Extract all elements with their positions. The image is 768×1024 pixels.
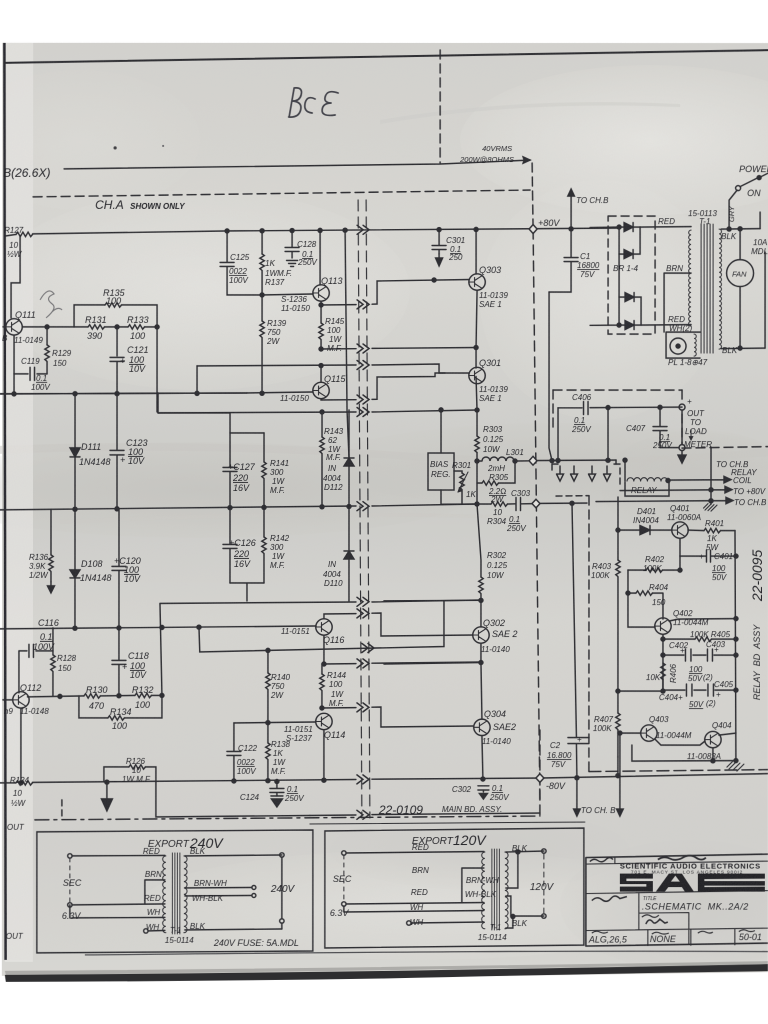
wire BRN-WH 120 bbox=[506, 852, 518, 888]
wire BRN bracket 120 bbox=[462, 868, 484, 902]
wire Q302 emitter junction bbox=[481, 643, 482, 719]
resistor R141 bbox=[263, 433, 265, 508]
resistor R405 bbox=[695, 637, 712, 641]
ground relay rail bbox=[727, 762, 744, 772]
terminal 120V top bbox=[542, 849, 546, 853]
wire relay right rail x736 bbox=[735, 531, 736, 763]
top border line bbox=[4, 50, 768, 63]
resistor R134 bbox=[108, 716, 125, 720]
wire Q403 Q404 bottom line y761 bbox=[632, 745, 736, 761]
wire RED top 240 bbox=[72, 854, 165, 857]
title block frame bbox=[586, 854, 768, 946]
capacitor C128 bbox=[285, 231, 299, 258]
wire R131 R133 line bbox=[74, 326, 157, 328]
wire Q404 collector bbox=[719, 733, 736, 735]
node METER circle bbox=[679, 445, 685, 451]
node +80V diamond bbox=[529, 225, 537, 234]
terminal SEC bottom bbox=[68, 903, 72, 907]
wire step column x161 bbox=[160, 600, 480, 696]
wire Q113 base bbox=[262, 294, 313, 295]
resistor R142 bbox=[263, 508, 265, 583]
node junction R129 top bbox=[45, 325, 49, 329]
wire Q403 base bbox=[620, 732, 641, 734]
wire fan top bbox=[739, 229, 741, 259]
wire 120V dashed link bbox=[543, 854, 545, 913]
resistor R129 bbox=[46, 327, 48, 374]
wire WH bottom 240 bbox=[148, 929, 165, 932]
wire relay coil to TO CH.B RELAY COIL arrow bbox=[668, 476, 731, 482]
resistor R304 bbox=[491, 502, 508, 506]
capacitor C126 bbox=[223, 508, 237, 583]
transformer 240 secondary coil bbox=[184, 856, 187, 933]
node junction 197 bbox=[195, 391, 199, 395]
wire C404 C405 line y690 bbox=[663, 689, 736, 691]
diode D110 bbox=[344, 551, 354, 559]
node B line B(26.6X) bbox=[64, 160, 530, 169]
wire WH-BLK 120 bbox=[506, 896, 511, 916]
wire TO CH.B arrow left bbox=[576, 778, 578, 810]
capacitor C2 bbox=[568, 738, 589, 744]
terminal 120V bottom bbox=[542, 914, 546, 918]
wire BLK bottom 240 bbox=[185, 929, 282, 930]
ground arrow meter bbox=[660, 448, 682, 457]
ground hatch x711 bbox=[704, 504, 718, 512]
label DATE bbox=[592, 931, 608, 933]
node junction R140 top bbox=[266, 648, 270, 652]
wire input stub Q111 base bbox=[3, 326, 6, 328]
terminal pin 1 bbox=[557, 466, 564, 481]
wire relay left to output bbox=[624, 460, 626, 481]
rail -80V y782 bbox=[0, 773, 768, 783]
wire Q115 emitter step bbox=[321, 373, 445, 400]
ground arrow C301 bbox=[438, 254, 440, 259]
wire bias reg bottom to R304 line bbox=[441, 490, 477, 504]
terminal 240V top bbox=[280, 853, 284, 857]
wire Q115 collector bbox=[320, 365, 322, 382]
feedback rail y394 bbox=[0, 393, 247, 394]
bias regulator box U301 bbox=[428, 453, 454, 490]
dashed stub above 40VRMS bbox=[439, 50, 441, 163]
node junctions rail696 bbox=[58, 694, 62, 698]
resistor R131 bbox=[88, 325, 105, 329]
wire BRN-WH 240 bbox=[185, 886, 252, 889]
resistor R124 bbox=[16, 781, 33, 785]
connector arrows on fold bbox=[357, 225, 369, 234]
rail C116 y628 bbox=[0, 626, 316, 629]
R126 loop bbox=[104, 767, 156, 782]
wire line y664 bbox=[324, 662, 481, 664]
wire C119 stub bbox=[14, 373, 47, 375]
wire BLK bottom 120 bbox=[506, 916, 544, 928]
node junction rail394 bbox=[115, 392, 119, 396]
wire Q116 collector bbox=[324, 613, 473, 636]
node junctions rail782 bbox=[19, 781, 23, 785]
node junction C2 column top bbox=[570, 501, 574, 505]
resistor R403 bbox=[617, 497, 619, 691]
terminal SEC top bbox=[68, 854, 72, 858]
node -80V diamond bbox=[536, 774, 544, 783]
wire R402 line y570 bbox=[628, 556, 680, 570]
diode BR1 bbox=[624, 223, 633, 232]
export 120V box bbox=[325, 828, 584, 948]
diode D111 bbox=[70, 448, 80, 457]
terminal 240V bottom bbox=[280, 919, 284, 923]
wire Q402 emitter down bbox=[662, 634, 664, 691]
terminal WH bottom 240 bbox=[144, 929, 148, 933]
resistor R137 bbox=[261, 231, 263, 295]
transformer 240 primary coil bbox=[163, 856, 166, 933]
wire step from rail to y413 bbox=[157, 393, 159, 413]
node junction C121 top bbox=[115, 325, 119, 329]
wire Q403 emitter line to Q404 bbox=[655, 739, 705, 745]
lamp winding coil bbox=[694, 334, 696, 356]
transistor Q116 bbox=[316, 619, 332, 635]
wire BLK bottom bbox=[721, 347, 765, 350]
wire column x345 from rail to D112 bbox=[345, 230, 349, 458]
export 240V box bbox=[37, 830, 313, 953]
diode D401 bbox=[640, 526, 650, 535]
wire RED mid 120 bbox=[346, 902, 484, 904]
node junction Q116 emitter bbox=[322, 662, 326, 666]
switch POWER ON bbox=[736, 186, 741, 191]
resistor R303 bbox=[475, 436, 479, 453]
wire TO CH.B up arrow at +80V bbox=[570, 195, 572, 229]
wire Q114 emitter bbox=[323, 730, 325, 782]
wire Q401 emitter to R401 bbox=[688, 529, 735, 532]
transistor Q402 bbox=[655, 618, 671, 634]
wire R136 D108 columns bbox=[51, 509, 75, 582]
capacitor C124 bbox=[270, 781, 284, 796]
wire Q112 collector line y696 bbox=[27, 695, 162, 697]
wire RED bottom to transformer bbox=[641, 324, 691, 327]
wire output line into terminals bbox=[615, 460, 617, 464]
wire R405 line y639 bbox=[663, 638, 736, 640]
diode D108 bbox=[70, 570, 80, 578]
transistor Q303 bbox=[469, 274, 485, 290]
inductor L301 bbox=[477, 457, 515, 461]
transistor Q113 bbox=[313, 285, 329, 301]
wire Q111 collector to R131 line bbox=[23, 326, 75, 328]
wire Q116 emitter bbox=[323, 635, 325, 664]
wire BRN tap bbox=[664, 273, 691, 332]
wire y691 R403 to R406 bbox=[618, 690, 663, 692]
wire C402 C403 line y655 bbox=[663, 654, 736, 656]
wire C127 R141 bracket bbox=[158, 413, 264, 433]
wire SEC dashed link 120 bbox=[343, 855, 345, 902]
channel fold dashed pair bbox=[358, 200, 362, 818]
diode D112 bbox=[344, 458, 354, 466]
terminal SEC top 120 bbox=[342, 851, 346, 855]
logo letter S bbox=[620, 874, 653, 892]
wire WH-BLK 240 bbox=[185, 894, 252, 897]
SAE logo block bbox=[620, 874, 765, 892]
wire Q401 collector down bbox=[679, 538, 681, 556]
wire C1 negative down to output line bbox=[549, 292, 552, 461]
capacitor C303 bbox=[516, 498, 521, 511]
transformer T-1 primary coil bbox=[689, 230, 691, 326]
transistor Q114 bbox=[316, 713, 332, 729]
resistor R126 bbox=[129, 765, 146, 769]
stray ink dot 1 bbox=[114, 146, 117, 149]
resistor R402 bbox=[646, 568, 663, 572]
node junction Q114 top bbox=[320, 706, 324, 710]
wire Q116 base from rail628 bbox=[315, 625, 317, 628]
transformer 120 secondary coil bbox=[505, 852, 508, 929]
arrowhead 40VRMS line bbox=[523, 157, 530, 163]
wire x711 vertical to ground bbox=[710, 447, 712, 504]
main board dash-dot bottom edge bbox=[35, 816, 540, 820]
wire input bracket to Q111 bbox=[11, 236, 20, 318]
resistor R145 bbox=[320, 305, 322, 349]
wire line y815 to fold bbox=[310, 813, 540, 816]
wire Q303 collector bbox=[475, 229, 477, 274]
wire C406 line y408 bbox=[558, 406, 682, 409]
terminal pin 2 bbox=[571, 466, 578, 481]
R135 bypass box top bbox=[74, 305, 157, 327]
node diamond C303 fold bbox=[532, 499, 540, 508]
transformer T-1 core bbox=[701, 224, 713, 353]
ground C302 bbox=[479, 794, 487, 800]
wire RED top to transformer bbox=[640, 226, 691, 229]
wire TO +80V arrow bbox=[620, 486, 732, 492]
wire WH 240 bbox=[70, 905, 165, 918]
wire Q113 emitter to line y305 bbox=[321, 279, 469, 305]
node diamond output fold bbox=[529, 456, 537, 465]
node junctions rail628 bbox=[73, 626, 77, 630]
left page edge line bbox=[3, 43, 7, 960]
resistor R135 bbox=[105, 303, 122, 307]
ground C124 bbox=[271, 795, 283, 797]
label DRAWN JR bbox=[642, 915, 659, 918]
capacitor C116 bbox=[29, 644, 34, 657]
capacitor C121 bbox=[110, 327, 124, 394]
wire fan bottom bbox=[739, 287, 741, 348]
lamp PL1-8 box bbox=[666, 332, 700, 358]
capacitor C119 bbox=[30, 367, 35, 380]
transistor Q304 bbox=[474, 719, 490, 735]
wire RED top 120 bbox=[346, 851, 484, 853]
capacitor C123 bbox=[110, 394, 124, 510]
wire bias reg top bbox=[440, 410, 442, 453]
resistor R128 bbox=[52, 651, 54, 696]
rail y600 to Q302 bbox=[479, 598, 483, 602]
main board dashed top edge bbox=[33, 190, 530, 197]
wire Q111 emitter down bbox=[13, 335, 15, 394]
transformer T-1 secondary coil bbox=[719, 229, 721, 349]
logo letter E bbox=[698, 874, 765, 892]
capacitor C402 bbox=[685, 649, 691, 661]
wire nested feedback loops left of Q302 bbox=[384, 599, 481, 602]
capacitor C401 bbox=[680, 550, 736, 562]
wire y410 junction bbox=[475, 408, 479, 412]
transformer 120 primary coil bbox=[482, 852, 485, 929]
wire Q402 collector line y619 bbox=[669, 619, 736, 622]
resistor R305 loop bbox=[477, 461, 515, 483]
wire 240V right link bbox=[281, 857, 283, 929]
wire BLK top 240 bbox=[185, 855, 282, 856]
wire Q114 collector line y708 bbox=[322, 707, 473, 727]
resistor R139 bbox=[261, 295, 263, 393]
wire BLK top to switch area bbox=[721, 228, 760, 231]
resistor R132 bbox=[135, 693, 152, 697]
transistor Q302 bbox=[473, 627, 489, 643]
capacitor C301 bbox=[432, 230, 446, 254]
label CKD bbox=[698, 931, 713, 933]
wire line y366 Q301 base feed bbox=[197, 364, 469, 373]
capacitor C407 bbox=[653, 407, 667, 447]
wire bridge left rail bbox=[590, 227, 619, 325]
wire x608 down to output line bbox=[607, 408, 609, 461]
main board dashed left tick bbox=[61, 800, 63, 818]
transistor Q301 bbox=[469, 367, 485, 383]
capacitor C125 bbox=[220, 231, 262, 295]
speaker terminal dashed box bbox=[552, 464, 558, 470]
title block scribbles bbox=[590, 858, 613, 862]
resistor R401 bbox=[704, 528, 721, 532]
node junctions rail510 bbox=[73, 507, 77, 511]
transistor Q403 bbox=[641, 725, 657, 741]
resistor R404 bbox=[636, 591, 653, 595]
diode BR2 bbox=[624, 250, 633, 259]
resistor R136 bbox=[49, 555, 53, 572]
bridge BR1-4 dashed box bbox=[608, 216, 655, 334]
handwritten BCE bbox=[289, 88, 339, 117]
wire Q303 emitter chain bbox=[476, 290, 477, 436]
resistor R406 bbox=[661, 663, 665, 680]
ground at rail782 bbox=[106, 782, 108, 800]
terminal WH-BLK bbox=[252, 893, 256, 897]
capacitor C118 bbox=[112, 628, 126, 696]
dashed line right of +80V bbox=[532, 163, 533, 229]
wire meter to ground bbox=[681, 410, 683, 445]
wire C126 R142 bottom bracket bbox=[230, 583, 264, 601]
transistor Q111 bbox=[6, 319, 22, 335]
wire fuse right bbox=[760, 212, 765, 348]
node junction R143 top bbox=[320, 410, 324, 414]
wire Q115 base rail bbox=[0, 392, 313, 394]
wire C116 stub bbox=[19, 628, 53, 693]
wire right edge of box down bbox=[156, 327, 158, 412]
wire R304 C303 line y504 bbox=[477, 483, 587, 504]
relay coil box bbox=[625, 482, 669, 496]
title block APPVD scribble bbox=[592, 896, 627, 901]
wire TO CH.B arrow mid bbox=[596, 497, 733, 503]
ground C128 bbox=[287, 260, 298, 266]
bottom paper edge bbox=[0, 972, 768, 1024]
terminal WH bottom 120 bbox=[407, 921, 411, 925]
capacitor C403 bbox=[707, 649, 712, 661]
resistor R140 bbox=[267, 650, 269, 722]
wire WH bottom 120 bbox=[411, 922, 484, 923]
capacitor C122 bbox=[227, 723, 241, 782]
node OUT circle bbox=[679, 404, 685, 410]
wire R407 bottom bbox=[617, 757, 619, 776]
node junction R133 right bbox=[155, 325, 159, 329]
capacitor C405 bbox=[708, 684, 714, 696]
resistor R302 bbox=[479, 577, 483, 594]
wire output line y461 bbox=[515, 460, 616, 461]
capacitor C120 bbox=[112, 509, 126, 628]
resistor R144 bbox=[321, 664, 323, 708]
stray ink dot 2 bbox=[162, 145, 164, 147]
fan circle bbox=[727, 260, 754, 287]
wire Q113 collector bbox=[319, 230, 321, 285]
transistor Q115 bbox=[313, 382, 329, 398]
wire Q402 base bbox=[628, 593, 655, 627]
relay board dashed boundary bbox=[588, 496, 590, 771]
transistor Q404 bbox=[705, 731, 721, 747]
wire RED mid 240 bbox=[72, 904, 165, 905]
wire R404 line y593 bbox=[628, 570, 663, 619]
resistor R127 bbox=[16, 232, 33, 236]
node junctions +80V rail bbox=[225, 229, 229, 233]
capacitor C127 bbox=[223, 433, 237, 508]
transistor Q112 bbox=[13, 692, 29, 708]
transformer 240 core bbox=[172, 853, 180, 934]
terminal pin 4 bbox=[604, 466, 611, 481]
wire stub 197 bbox=[196, 366, 198, 393]
terminal SEC bottom 120 bbox=[342, 902, 346, 906]
wire R126 right leg to line y817 bbox=[156, 782, 310, 817]
wire input stub Q112 base bbox=[3, 699, 13, 701]
resistor R143 bbox=[321, 412, 323, 506]
ground arrow R136 bbox=[50, 582, 52, 587]
handwritten squiggle near Q111 bbox=[40, 291, 62, 318]
wire line y413 to output column bbox=[158, 410, 476, 413]
relay coil bbox=[627, 478, 668, 481]
wire R302 column bbox=[477, 504, 481, 627]
terminal BRN-WH bbox=[252, 885, 256, 889]
wire BLK top 120 bbox=[506, 851, 544, 852]
logo letter A bbox=[656, 874, 694, 892]
transistor Q401 bbox=[672, 522, 688, 538]
wire GRY vertical bbox=[729, 190, 737, 229]
R134 loop bbox=[79, 695, 162, 718]
diode BR4 bbox=[625, 321, 634, 330]
wire C2 column x572 bbox=[572, 503, 577, 778]
resistor R133 bbox=[128, 325, 145, 329]
capacitor C406 bbox=[584, 402, 589, 415]
diode BR3 bbox=[625, 293, 634, 302]
wire WH 120 bbox=[344, 906, 484, 912]
rail y510 bbox=[0, 504, 477, 510]
transformer 120 core bbox=[492, 849, 500, 930]
label SCALE NONE bbox=[652, 932, 669, 934]
wire Q112 emitter bbox=[20, 708, 22, 782]
terminal pin 3 bbox=[589, 466, 596, 481]
wire D401 line y530 bbox=[618, 529, 672, 531]
wire SEC dashed link bbox=[69, 858, 71, 903]
capacitor C1 bbox=[549, 229, 578, 292]
meter dashed box bbox=[553, 389, 682, 391]
resistor R138 bbox=[267, 723, 269, 782]
capacitor C302 bbox=[478, 786, 489, 792]
lamp PL1-8 bbox=[670, 338, 686, 354]
wire R145 bottom line y349 bbox=[321, 347, 476, 349]
wire Q114 base line y722 bbox=[234, 722, 316, 723]
thin line above export boxes bbox=[310, 822, 585, 824]
+80V rail wire bbox=[6, 228, 619, 236]
resistor R407 bbox=[617, 691, 619, 757]
node junctions C406 line bbox=[606, 406, 610, 410]
wire BRN bracket 240 bbox=[145, 880, 165, 904]
resistor R130 bbox=[84, 694, 101, 698]
wire Q304 emitter to -80V bbox=[482, 736, 483, 779]
capacitor C404 bbox=[686, 684, 692, 696]
wire TO CH.B arrow right bbox=[619, 733, 621, 810]
wire line y650 bbox=[199, 601, 444, 652]
label DWG NO bbox=[739, 930, 755, 932]
